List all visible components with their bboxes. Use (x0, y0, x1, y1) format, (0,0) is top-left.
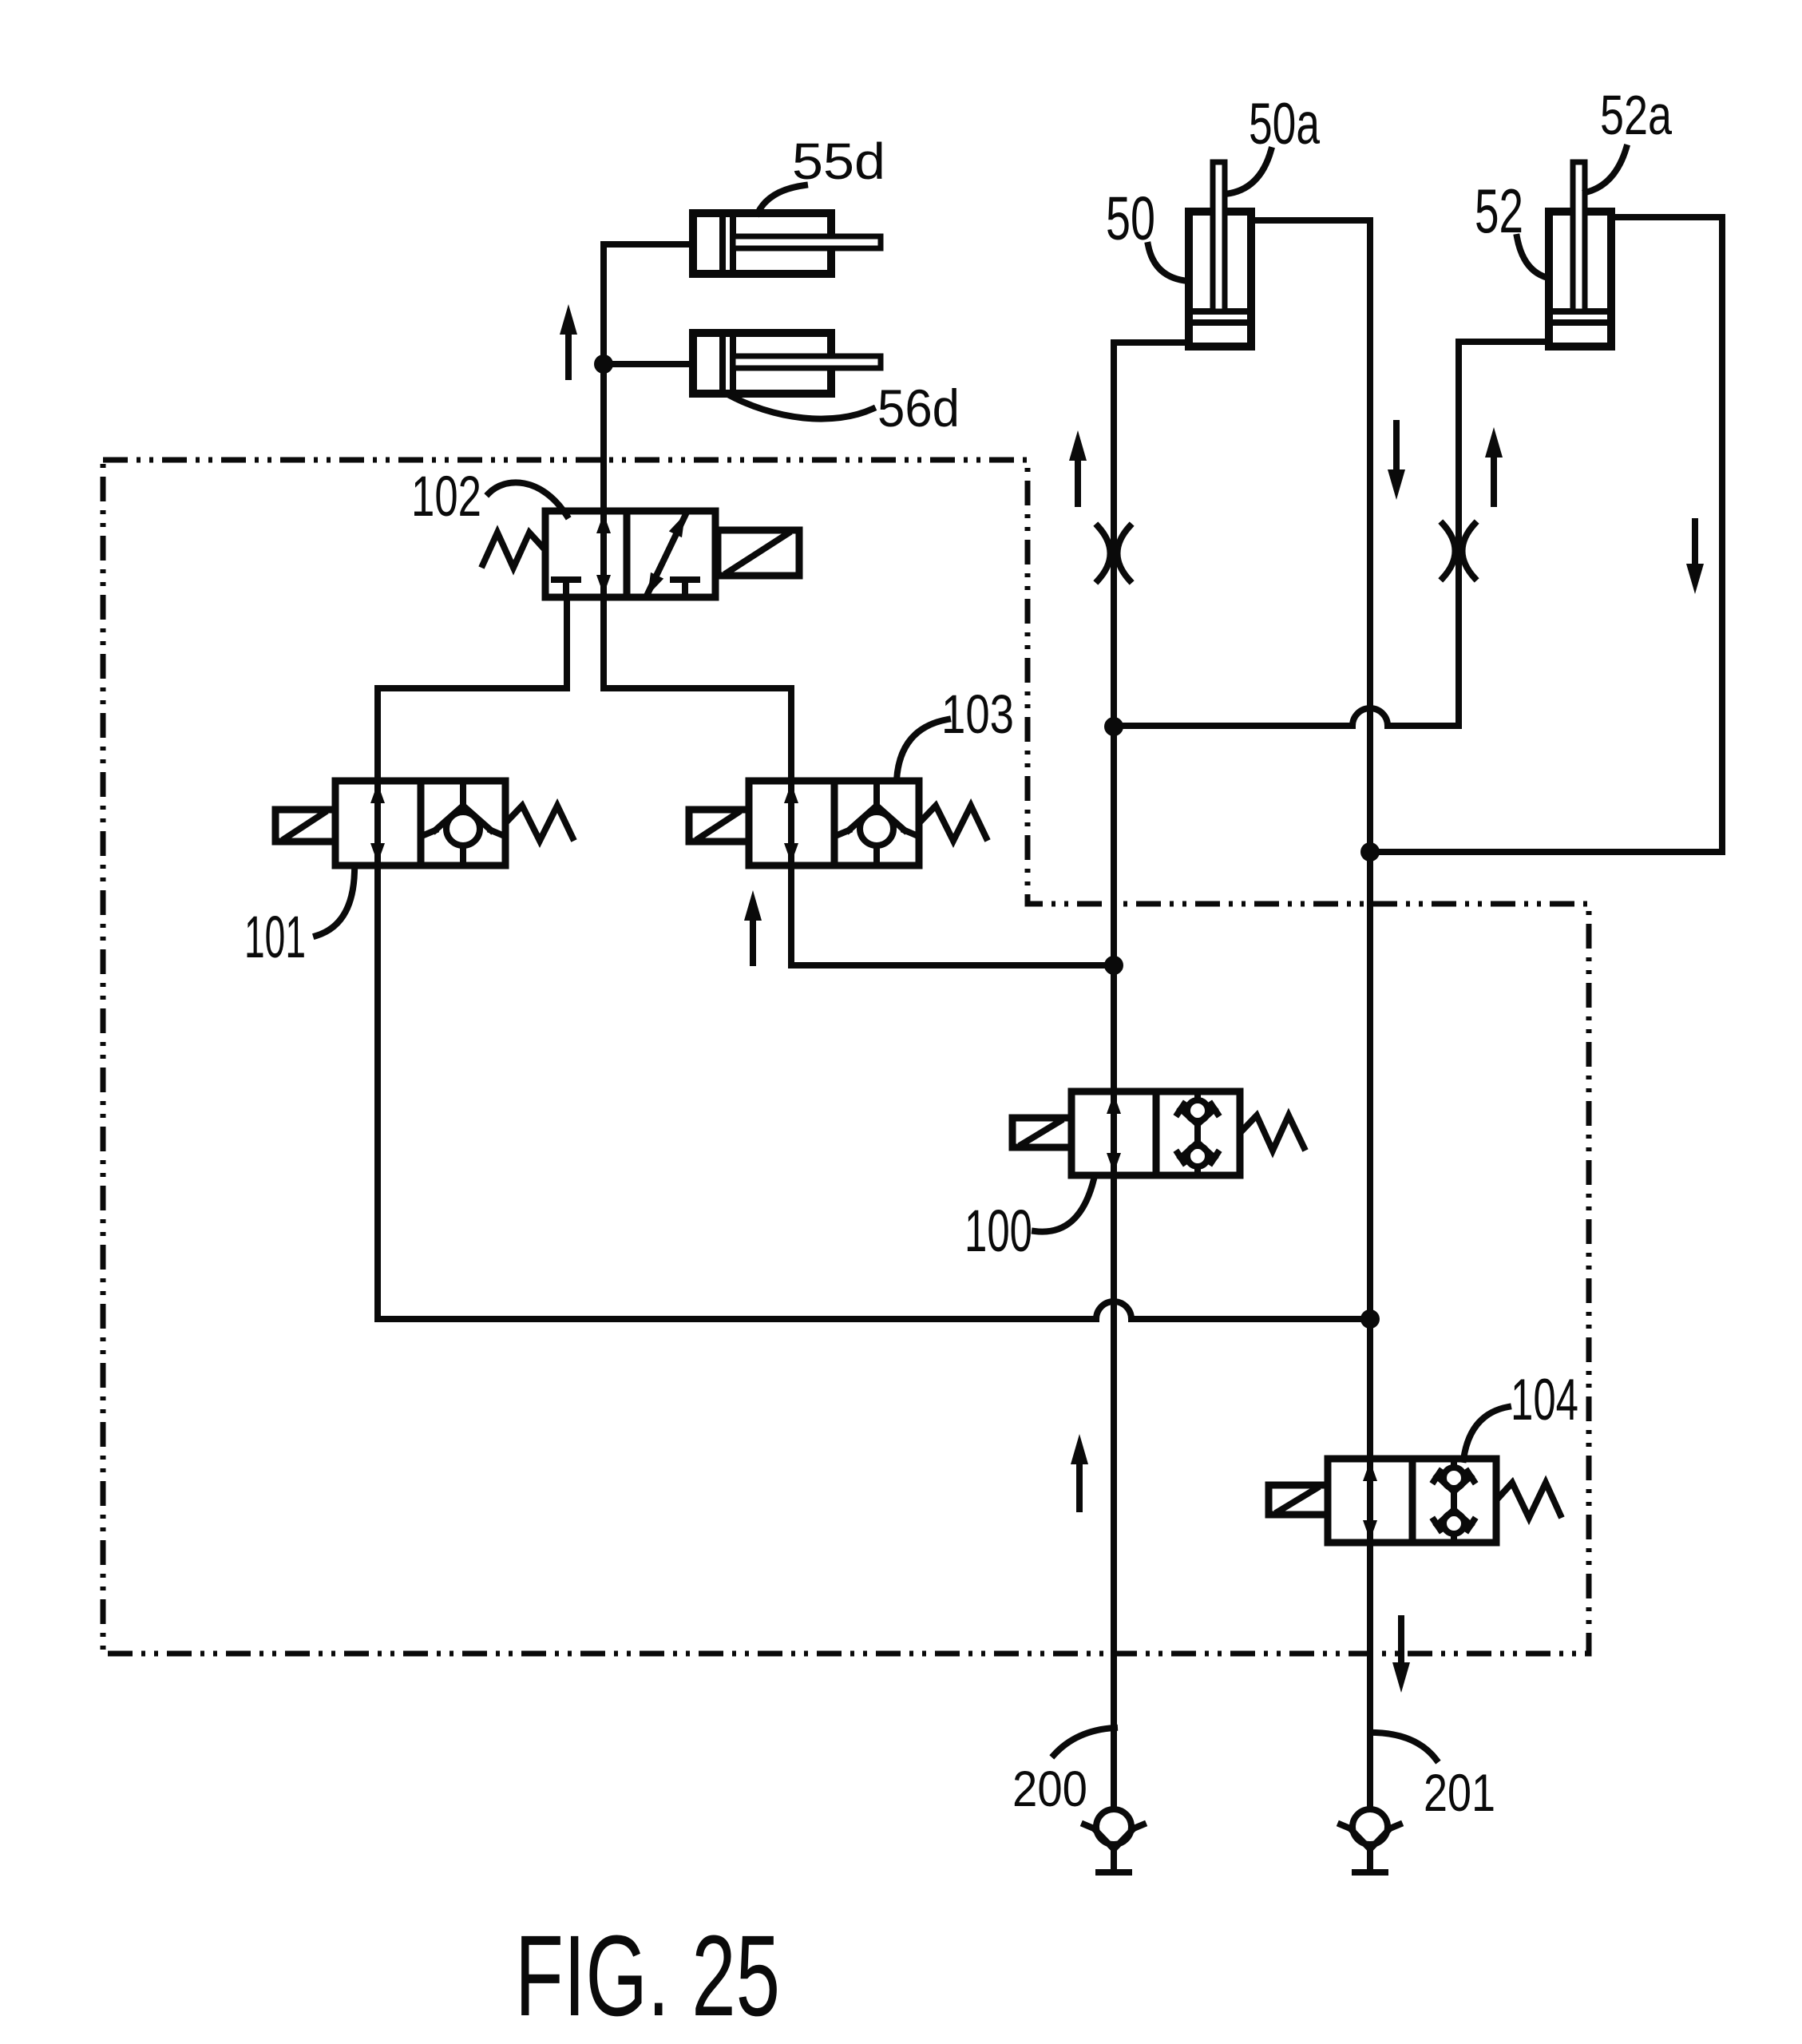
svg-text:200: 200 (1012, 1761, 1087, 1817)
svg-text:52a: 52a (1600, 84, 1672, 146)
svg-text:102: 102 (411, 465, 481, 529)
svg-text:56d: 56d (877, 378, 960, 438)
svg-text:FIG. 25: FIG. 25 (515, 1911, 780, 2040)
svg-text:55d: 55d (792, 133, 885, 190)
svg-text:100: 100 (964, 1198, 1032, 1264)
svg-text:103: 103 (941, 683, 1014, 745)
svg-text:50a: 50a (1249, 92, 1320, 156)
svg-text:201: 201 (1424, 1763, 1495, 1822)
svg-text:101: 101 (244, 904, 306, 970)
svg-text:104: 104 (1511, 1368, 1578, 1432)
